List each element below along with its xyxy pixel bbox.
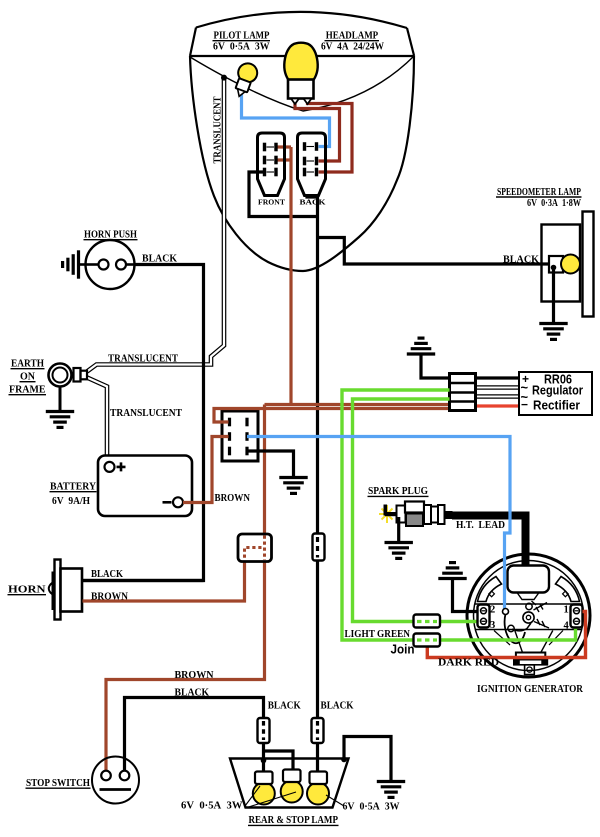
svg-text:6V 9A/H: 6V 9A/H [52,496,90,507]
svg-text:TRANSLUCENT: TRANSLUCENT [110,408,182,419]
bottom lighting coil [515,631,553,653]
RR06 regulator rectifier box [519,372,592,415]
label speedometer lamp [496,186,582,209]
svg-text:H.T. LEAD: H.T. LEAD [456,519,505,531]
svg-text:4: 4 [564,621,570,632]
headlamp shell outline [190,12,414,271]
battery [98,456,192,517]
wire black ignition connector to ground [247,451,294,476]
node speedometer dot [551,265,557,271]
stop switch [92,757,139,804]
svg-text:EARTH: EARTH [11,359,44,370]
wire black branch to speedometer lamp [318,238,557,265]
ground at generator (inverted) [438,563,466,579]
label horn push [84,230,138,241]
rear lamp bulb 2 [281,770,303,803]
pilot lamp bulb [230,61,260,100]
svg-text:STOP SWITCH: STOP SWITCH [26,778,90,789]
rear lamp bulb 3 [307,772,329,805]
wire red regulator row [476,404,520,407]
wire black horn push to horn [83,265,204,581]
rear lamp bulb 1 [253,772,275,805]
regulator connector block [450,374,476,411]
switch box with dotted contacts [238,534,272,562]
ground above regulator (inverted) [407,338,435,354]
wire black FRONT connector earth leg [249,172,318,217]
svg-text:SPEEDOMETER LAMP: SPEEDOMETER LAMP [497,186,581,198]
blue terminal ring [503,609,509,615]
horn [49,560,82,620]
wire translucent regulator rows [476,388,520,397]
ignition coil [508,566,550,593]
node rear lamp ground dot [341,757,347,763]
svg-text:Regulator: Regulator [532,384,583,398]
wire black HT lead [452,516,526,567]
wire black rear lamp to ground [344,737,391,781]
generator terminal block right [571,605,583,628]
connector BACK [298,133,326,196]
svg-text:1: 1 [564,605,569,616]
node shell earth dot [221,75,227,81]
wire brown switch box to stop switch [106,561,265,771]
label horn [8,585,47,596]
svg-text:IGNITION GENERATOR: IGNITION GENERATOR [477,684,583,695]
svg-text:6V 0·5A 3W: 6V 0·5A 3W [213,40,270,52]
ground at spark plug [385,543,413,559]
svg-text:−: − [521,398,528,412]
rear and stop lamp housing [230,759,349,808]
wire dark red terminal 1 loop to join block [427,612,585,658]
ground at earth on frame [46,412,74,428]
wire brown horn to switch box [83,561,245,602]
wire dark brown headlamp terminal B to BACK pin 3 [308,99,353,172]
wire dark brown headlamp terminal A to BACK pin 2 [295,99,340,161]
wire black terminal 2 to ground [453,580,478,612]
left pole wing [478,577,502,602]
ground at horn push [80,263,86,266]
speedometer bulb [549,256,563,273]
shell inner arc [190,56,414,111]
label rear and stop lamp [248,815,339,826]
svg-text:BROWN: BROWN [175,670,214,681]
wire green regulator to join block and terminal 4 [342,390,576,640]
svg-text:2: 2 [490,605,495,616]
label battery [50,482,97,508]
wire brown junction down to switch box [263,405,266,534]
svg-text:BATTERY: BATTERY [50,482,96,493]
label spark plug [368,485,429,497]
wire black spark plug to ground [397,517,400,541]
ignition generator body [467,554,590,677]
svg-text:BROWN: BROWN [91,592,128,603]
svg-text:FRONT: FRONT [258,198,285,207]
svg-text:BLACK: BLACK [142,254,178,265]
earth on frame symbol [49,364,88,411]
svg-text:BLACK: BLACK [175,687,210,698]
svg-text:BLACK: BLACK [268,700,302,711]
join block B [414,634,441,647]
spark plug [379,502,453,528]
svg-text:6V 0·5A 3W: 6V 0·5A 3W [343,802,400,813]
wire blue pilot lamp to BACK pin 1 [242,92,330,147]
svg-text:6V 0·5A 3W: 6V 0·5A 3W [181,801,243,812]
svg-text:BLACK: BLACK [321,700,355,711]
label headlamp [321,30,384,53]
wire black speedometer to ground [552,266,555,322]
ground at rear lamp [377,782,405,798]
horn push switch [86,240,136,289]
svg-text:HORN PUSH: HORN PUSH [84,230,137,241]
wire brown bus upper to regulator [265,403,450,406]
ground at speedometer [539,324,567,340]
contact points and cam [523,612,534,623]
svg-text:HORN: HORN [8,585,46,596]
speedometer lamp box [542,212,594,317]
svg-text:FRAME: FRAME [9,385,46,396]
headlamp bulb [284,43,317,104]
wire from blue terminal to points [505,614,525,643]
node rear lamp feed dot [261,758,267,764]
svg-text:TRANSLUCENT: TRANSLUCENT [108,354,178,365]
connector FRONT [258,133,285,196]
svg-text:BACK: BACK [300,198,326,207]
wire black BACK connector to rear lamp (long vertical) [307,195,318,772]
svg-text:6V 0·3A 1·8W: 6V 0·3A 1·8W [527,198,581,209]
leader lines to bulb ratings [245,786,344,808]
label stop switch [26,778,91,789]
label pilot lamp [213,30,271,53]
svg-text:BROWN: BROWN [215,493,251,504]
ignition switch connector block [222,411,258,461]
svg-text:3: 3 [490,620,495,631]
wire black stop switch to rear lamp [125,698,264,772]
svg-text:ON: ON [20,372,35,383]
wire translucent earth to battery plus [87,378,107,463]
svg-text:LIGHT GREEN: LIGHT GREEN [345,629,411,640]
svg-text:TRANSLUCENT: TRANSLUCENT [213,97,224,164]
svg-text:BLACK: BLACK [91,569,124,580]
wire brown bus lower to regulator [214,409,450,423]
svg-text:Join: Join [391,643,415,657]
wire blue ignition connector to generator [247,437,510,611]
wire brown battery minus to ignition connector [183,437,229,503]
svg-text:6V 4A 24/24W: 6V 4A 24/24W [321,40,384,52]
wire translucent earth from shell dot to earth-on-frame connector [87,79,224,372]
svg-text:DARK RED: DARK RED [438,658,499,669]
generator terminal block left [478,605,490,628]
inline connector rear right [312,718,324,743]
join block A [414,615,441,628]
right pole wing [556,577,580,602]
wire black bridge to middle bulb [264,751,294,770]
svg-text:SPARK PLUG: SPARK PLUG [368,485,428,497]
wire brown FRONT pins down to junction [277,147,291,405]
label earth on frame [9,359,47,396]
wire black horn to junction [83,579,204,582]
inline connector rear left [258,718,270,743]
svg-text:Rectifier: Rectifier [533,399,580,413]
ground at ignition connector [279,478,307,494]
inline connector on long black wire upper [313,534,325,561]
wire green regulator to terminal 3 [353,399,478,622]
wire black ground to regulator connector [421,355,519,378]
svg-text:REAR & STOP LAMP: REAR & STOP LAMP [249,815,339,826]
svg-text:BLACK: BLACK [503,255,540,266]
